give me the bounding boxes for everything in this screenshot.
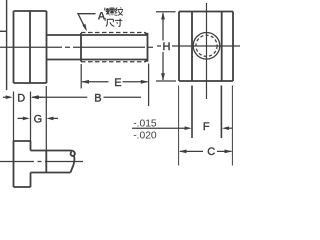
dim G left arrowhead [23, 117, 30, 121]
thread start line [80, 33, 82, 62]
CJK char chi (rule) [106, 19, 115, 26]
dim E right arrowhead [141, 80, 149, 84]
dim F left arrowhead [185, 126, 192, 130]
end chamfer top [145, 33, 148, 35]
lower view: S-break with curl [71, 151, 75, 173]
dim D right arrowhead [31, 95, 38, 99]
svg-text:G: G [34, 114, 43, 126]
dim H top arrowhead [161, 12, 165, 20]
shaft top edge [47, 34, 148, 36]
dim E extension left [80, 64, 82, 89]
dim E/B extension right [148, 64, 150, 107]
dim F right arrow tail [228, 127, 232, 129]
dim G right arrowhead [46, 117, 53, 121]
lower view centerline [0, 161, 83, 163]
ext right edge [231, 86, 233, 166]
dim C line [180, 150, 232, 152]
screw centerline [0, 46, 155, 48]
screw head outline (side view) [14, 11, 47, 83]
extension stubs below block [179, 86, 233, 166]
block outline [179, 12, 233, 82]
dim B arrowhead [31, 95, 39, 99]
dim C right arrowhead [225, 150, 233, 154]
lower view: shank top edge [31, 150, 72, 152]
dim C left arrowhead [179, 150, 187, 154]
dim F right arrowhead [222, 126, 229, 130]
svg-text:B: B [94, 93, 101, 105]
svg-text:H: H [163, 41, 171, 53]
tolerance leader / F dim line [132, 127, 190, 129]
thread crest dashed bottom [81, 61, 145, 63]
ext inner left [191, 86, 193, 139]
quote tick 2 [104, 18, 106, 21]
end chamfer bottom [145, 60, 148, 62]
cropped neighbour figure tick [0, 30, 7, 32]
leader A arrow [78, 14, 96, 30]
svg-text:-.020: -.020 [133, 131, 157, 142]
vertical centerline of block [206, 3, 208, 99]
hole circle dashed (thread) [196, 35, 217, 56]
hole circle solid [193, 33, 220, 60]
dim D left arrowhead [6, 95, 13, 99]
dim H bottom arrowhead [161, 73, 165, 81]
svg-text:F: F [203, 121, 210, 133]
dim H extension bottom [156, 80, 176, 82]
extension line G-right / neck feature [45, 86, 47, 150]
dim G arrows (outside) [18, 117, 59, 119]
CJK char cun (inch) [115, 19, 122, 27]
lower view: neck feature line [45, 151, 47, 173]
horizontal centerline of block [157, 45, 240, 47]
CJK char luo (thread) [106, 7, 115, 15]
dim E left arrowhead [81, 80, 89, 84]
svg-text:D: D [17, 92, 25, 104]
shaft bottom edge [47, 59, 148, 61]
thread crest dashed top [81, 32, 145, 34]
lower view: shank bottom edge [31, 172, 71, 174]
svg-text:E: E [114, 77, 121, 89]
block inner edge left [191, 12, 193, 82]
CJK char wen (pattern) [115, 7, 123, 15]
block inner edge right [221, 12, 223, 82]
svg-text:-.015: -.015 [133, 119, 157, 130]
dim B line [32, 96, 141, 98]
leader A arrowhead [82, 24, 87, 31]
dim H extension top [156, 11, 176, 13]
screw head flange face line [29, 11, 31, 83]
extension line D-right (flange right face) [30, 92, 32, 142]
quote tick 1 [104, 8, 107, 11]
cropped neighbour figure vertical edge [6, 0, 8, 90]
shaft end cap [147, 33, 149, 62]
dim D arrows (outside) [3, 96, 43, 98]
ext left edge [178, 86, 180, 166]
dim E line [82, 81, 148, 83]
extension line D-left / flange left edge [13, 92, 15, 142]
svg-text:C: C [207, 146, 215, 158]
dim H line [162, 13, 164, 80]
svg-text:A: A [98, 11, 106, 23]
ext inner right [220, 86, 222, 139]
lower view: flange outline [14, 141, 75, 187]
